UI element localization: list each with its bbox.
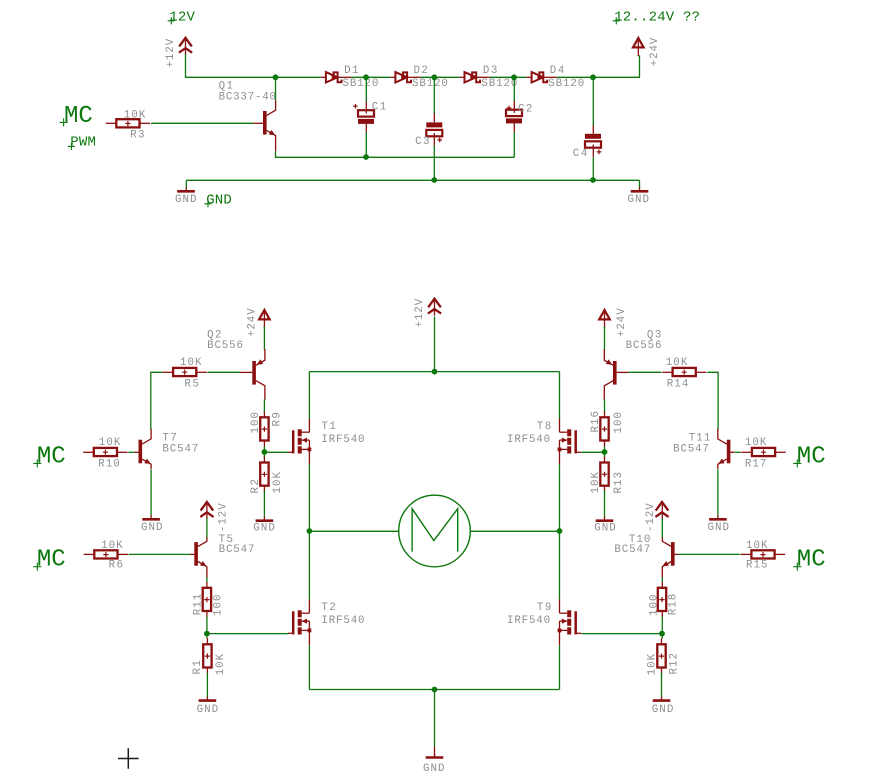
svg-text:D1: D1 (344, 65, 358, 77)
svg-text:T1: T1 (321, 421, 335, 433)
wire Q1 emitter to middle rail (276, 151, 515, 157)
wire C2 top (513, 77, 515, 101)
resistor R6 (84, 540, 128, 572)
transistor T7 (135, 429, 152, 469)
svg-text:R2: R2 (250, 479, 262, 493)
svg-text:IRF540: IRF540 (321, 434, 364, 446)
C1 plus (353, 104, 358, 109)
wire R18 to gate node (661, 617, 663, 634)
supply -12V T5 (200, 502, 229, 532)
supply +24V top (633, 37, 661, 66)
node top rail segment 1 (276, 76, 321, 78)
ground top-left (175, 187, 197, 206)
wire D1 to D2 (351, 76, 390, 78)
junction D1 cathode node (363, 74, 369, 80)
junction T1 gate node (262, 449, 268, 455)
svg-text:+24V: +24V (616, 308, 628, 337)
wire R5 to Q2 base (207, 371, 240, 373)
wire gate node to R1 (206, 634, 208, 639)
svg-text:12V: 12V (169, 10, 195, 26)
mosfet T9 (558, 600, 582, 646)
wire gate node to T1 (264, 451, 288, 453)
svg-text:C2: C2 (518, 104, 532, 116)
wire R1 to gnd (206, 673, 208, 698)
svg-text:R13: R13 (613, 472, 625, 494)
svg-text:10K: 10K (666, 357, 688, 369)
svg-text:R14: R14 (667, 379, 689, 391)
svg-text:R18: R18 (668, 594, 680, 616)
wire Q3 collector to R16 (604, 399, 606, 412)
resistor R9 (250, 411, 284, 446)
svg-text:10K: 10K (101, 540, 123, 552)
gnd pin bridge bottom (434, 746, 436, 757)
wire gate node to T8 (581, 451, 604, 453)
junction motor right node (557, 528, 563, 534)
wire T2 source to bottom rail (308, 645, 310, 689)
svg-text:+24V: +24V (649, 37, 661, 66)
resistor R17 (741, 437, 785, 470)
resistor R11 (192, 582, 224, 618)
supply +12V bridge (414, 298, 441, 327)
svg-text:R16: R16 (590, 411, 602, 433)
svg-text:IRF540: IRF540 (321, 615, 364, 627)
junction T8 gate node (602, 449, 608, 455)
transistor Q3 (604, 349, 628, 400)
wire T11 emitter to gnd (717, 469, 719, 516)
supply +24V Q3 (599, 308, 628, 337)
svg-text:BC547: BC547 (162, 444, 198, 456)
resistor R16 (590, 411, 625, 447)
svg-text:10K: 10K (215, 653, 227, 675)
svg-text:GND: GND (628, 194, 650, 206)
supply +12V (165, 38, 192, 68)
svg-text:IRF540: IRF540 (507, 615, 550, 627)
wire T5 emitter to R11 (206, 577, 208, 582)
wire R14 to T11 collector (707, 372, 718, 429)
transistor Q2 (240, 349, 265, 400)
svg-text:100: 100 (250, 412, 262, 434)
wire R15 to T10 base (678, 553, 740, 555)
wire Q2 emitter supply (263, 327, 265, 351)
svg-text:Q1: Q1 (219, 80, 233, 92)
svg-text:GND: GND (175, 194, 197, 206)
svg-text:R1: R1 (192, 660, 204, 674)
svg-text:-12V: -12V (218, 503, 230, 532)
resistor R2 (250, 457, 284, 494)
wire gate node to R2 (263, 452, 265, 458)
resistor R10 (83, 437, 127, 470)
wire C4 top (592, 77, 594, 125)
wire gnd stub left (185, 180, 187, 188)
mosfet T8 (558, 419, 582, 465)
wire motor right lead (470, 530, 559, 532)
ground R1 (197, 697, 219, 717)
svg-text:MC: MC (37, 547, 66, 574)
capacitor C4 (585, 124, 601, 157)
ground R2 (253, 517, 274, 535)
svg-text:GND: GND (197, 704, 219, 716)
wire R12 to gnd (661, 673, 663, 698)
ground T7 (141, 515, 163, 534)
svg-text:D2: D2 (414, 65, 428, 77)
svg-text:MC: MC (797, 547, 826, 574)
svg-text:10K: 10K (124, 109, 146, 121)
junction bridge bottom node (432, 687, 438, 693)
svg-text:SB120: SB120 (343, 78, 379, 90)
wire D4 to +24V corner (557, 55, 640, 77)
svg-text:R15: R15 (746, 559, 768, 571)
svg-text:MC: MC (64, 103, 93, 130)
transistor T10 (662, 537, 678, 577)
wire R5 to T7 collector (151, 372, 163, 429)
diode D4 (526, 72, 556, 82)
svg-text:BC547: BC547 (219, 544, 255, 556)
svg-text:100: 100 (213, 595, 225, 617)
svg-text:GND: GND (141, 522, 163, 534)
svg-text:BC337-40: BC337-40 (219, 92, 276, 104)
svg-text:SB120: SB120 (548, 78, 584, 90)
svg-text:T11: T11 (689, 432, 711, 444)
svg-text:D3: D3 (483, 65, 497, 77)
svg-text:BC556: BC556 (626, 340, 662, 352)
svg-text:R10: R10 (98, 458, 120, 470)
svg-text:100: 100 (613, 412, 625, 434)
svg-text:BC547: BC547 (673, 444, 709, 456)
resistor R3 (106, 109, 150, 141)
ground top-right (628, 187, 650, 206)
wire Q1 collector (275, 77, 277, 100)
svg-text:10K: 10K (99, 437, 121, 449)
svg-text:-12V: -12V (645, 503, 657, 532)
svg-text:SB120: SB120 (481, 78, 517, 90)
junction T2 gate node (204, 631, 210, 637)
wire -12V to T10 collector (661, 519, 663, 539)
svg-text:BC547: BC547 (614, 544, 650, 556)
wire top rail to T8 drain (559, 372, 561, 420)
wire T9 source to bottom rail (559, 645, 561, 689)
svg-text:+12V: +12V (414, 298, 426, 327)
diode D2 (390, 72, 420, 82)
wire T7 emitter to gnd (150, 469, 152, 516)
wire gnd stub right (639, 180, 641, 188)
svg-text:GND: GND (253, 522, 274, 534)
resistor R13 (590, 457, 625, 494)
svg-text:BC556: BC556 (207, 340, 243, 352)
C2 plus (507, 106, 512, 111)
capacitor C2 (506, 100, 522, 132)
svg-text:MC: MC (37, 443, 66, 470)
junction Q1 collector node (273, 74, 279, 80)
svg-text:T8: T8 (537, 421, 551, 433)
svg-text:C1: C1 (372, 101, 386, 113)
wire R3 to Q1 base (151, 122, 253, 124)
wire -12V to T5 collector (206, 519, 208, 539)
junction C1 bottom node (363, 154, 369, 160)
mosfet T1 (288, 419, 312, 465)
ground bridge bottom (423, 754, 445, 775)
svg-text:R5: R5 (184, 379, 198, 391)
junction motor left node (307, 528, 313, 534)
wire gate node to T9 (581, 633, 662, 635)
wire motor left lead (309, 530, 398, 532)
motor M1 (399, 495, 471, 567)
supply -12V T10 (645, 502, 668, 532)
wire D2 to D3 (421, 76, 460, 78)
wire Q2 collector to R9 (263, 399, 265, 412)
wire bottom gnd drop (434, 690, 436, 747)
C3 plus (437, 138, 442, 143)
wire gate node to R12 (661, 634, 663, 639)
svg-text:12..24V ??: 12..24V ?? (614, 10, 700, 26)
svg-text:R12: R12 (668, 653, 680, 675)
wire T1 source to T2 drain (308, 464, 310, 600)
wire top rail to T1 drain (308, 372, 310, 420)
wire T8 source to T9 drain (559, 464, 561, 600)
wire C1 bottom (365, 133, 367, 158)
svg-text:10K: 10K (647, 653, 659, 675)
wire gate node to R13 (604, 452, 606, 458)
junction D3 cathode node (511, 74, 517, 80)
svg-text:T7: T7 (162, 432, 176, 444)
svg-text:100: 100 (648, 595, 660, 617)
svg-text:10K: 10K (746, 540, 768, 552)
resistor R1 (192, 638, 227, 675)
wire bridge bottom rail (309, 689, 559, 691)
capacitor C1 (358, 101, 374, 133)
svg-text:R9: R9 (271, 412, 283, 426)
resistor R18 (648, 582, 679, 618)
diode D3 (459, 72, 489, 82)
wire C3 bottom (433, 146, 435, 181)
junction bridge top node (432, 369, 438, 375)
junction C3 gnd node (431, 177, 437, 183)
svg-text:D4: D4 (550, 65, 564, 77)
svg-text:C3: C3 (415, 136, 429, 148)
junction T9 gate node (659, 631, 665, 637)
sheet origin cross (118, 748, 139, 769)
svg-text:10K: 10K (590, 471, 602, 493)
wire C1 top (365, 77, 367, 101)
svg-text:10K: 10K (745, 437, 767, 449)
wire top gnd rail (186, 179, 639, 181)
transistor T5 (190, 537, 207, 577)
wire gate node to T2 (207, 633, 288, 635)
svg-text:R17: R17 (745, 458, 767, 470)
wire R13 to gnd (604, 490, 606, 517)
transistor Q1 (253, 100, 275, 151)
svg-text:R3: R3 (130, 129, 144, 141)
wire R10 to T7 base (128, 451, 134, 453)
svg-text:PWM: PWM (70, 135, 96, 151)
wire R17 to T11 base (735, 451, 741, 453)
wire R11 to gate node (206, 617, 208, 634)
resistor R12 (647, 638, 681, 675)
wire R16 to gate node (604, 446, 606, 452)
svg-text:10K: 10K (272, 471, 284, 493)
wire C3 top (433, 77, 435, 113)
svg-text:10K: 10K (180, 357, 202, 369)
wire D3 to D4 (490, 76, 527, 78)
capacitor C3 (426, 113, 442, 146)
svg-text:MC: MC (797, 443, 826, 470)
svg-text:GND: GND (652, 704, 674, 716)
svg-text:T9: T9 (537, 602, 551, 614)
ground T11 (708, 515, 730, 534)
wire R2 to gnd (263, 490, 265, 517)
svg-text:C4: C4 (573, 148, 587, 160)
resistor R5 (163, 357, 207, 390)
resistor R15 (741, 540, 785, 572)
svg-text:R6: R6 (109, 559, 123, 571)
svg-text:+24V: +24V (246, 308, 258, 337)
resistor R14 (662, 357, 706, 390)
ground R12 (652, 697, 674, 717)
svg-text:+12V: +12V (165, 38, 177, 67)
wire bridge top rail (309, 371, 559, 373)
diode D1 (321, 72, 351, 82)
C4 plus (597, 150, 602, 155)
svg-text:GND: GND (206, 192, 232, 208)
svg-text:T2: T2 (321, 602, 335, 614)
wire R9 to gate node (263, 446, 265, 452)
ground R13 (594, 517, 616, 535)
wire R14 to Q3 base (629, 371, 662, 373)
wire +12V to rail (186, 54, 276, 77)
wire T10 emitter to R18 (661, 577, 663, 582)
transistor T11 (718, 429, 735, 469)
svg-text:SB120: SB120 (412, 78, 448, 90)
supply +24V Q2 (246, 308, 269, 337)
svg-text:IRF540: IRF540 (507, 434, 550, 446)
wire Q3 emitter supply (604, 327, 606, 351)
svg-text:GND: GND (423, 763, 445, 775)
junction D4 cathode node (590, 74, 596, 80)
svg-text:GND: GND (594, 522, 616, 534)
junction C4 gnd node (590, 177, 596, 183)
svg-text:R11: R11 (192, 594, 204, 616)
junction D2 cathode node (431, 74, 437, 80)
wire C4 bottom (592, 157, 594, 180)
wire C2 bottom (513, 132, 515, 157)
mosfet T2 (288, 600, 312, 646)
svg-text:GND: GND (708, 522, 730, 534)
wire +12V drop (434, 317, 436, 372)
wire R6 to T5 base (129, 553, 191, 555)
